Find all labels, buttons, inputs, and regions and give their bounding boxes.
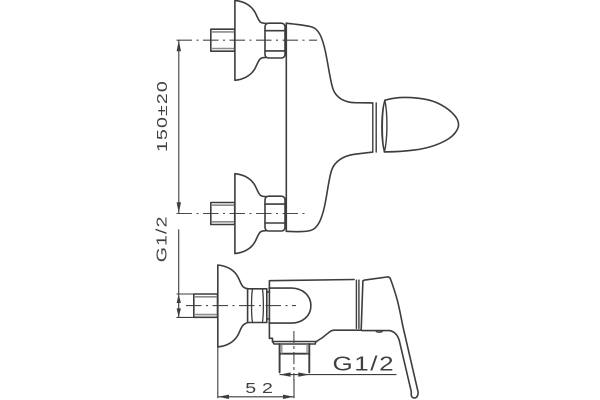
centerline top inlet <box>177 39 318 41</box>
side handle body <box>361 277 418 398</box>
pipe nipple bottom (threaded) <box>211 203 235 225</box>
wall extension line for 52 <box>218 347 294 398</box>
side pipe thread lines <box>195 297 218 315</box>
body outline lower S-curve <box>286 152 373 232</box>
arrow down 150±20 <box>177 202 181 213</box>
outlet flange centerline (vertical) <box>293 331 295 381</box>
escutcheon bell bottom <box>235 174 266 254</box>
arrow left 52 <box>218 395 229 399</box>
hex nut bottom <box>265 196 285 231</box>
inner inlet stadium <box>269 288 311 323</box>
side hex nut <box>248 289 267 323</box>
body wall face line <box>285 23 287 231</box>
side collar rings <box>356 280 359 328</box>
side pipe nipple <box>194 294 218 317</box>
arrow right outlet <box>298 372 309 376</box>
label 52 <box>245 379 278 396</box>
cartridge collar rings <box>373 103 376 152</box>
svg-text:52: 52 <box>245 379 278 396</box>
arrow up 150±20 <box>177 40 181 51</box>
outlet dimension line + leader to G1/2 <box>280 374 397 376</box>
pipe thread lines bottom <box>212 205 235 222</box>
arrow up pipe dia <box>177 294 181 303</box>
escutcheon bell top <box>235 0 266 80</box>
svg-text:G1/2: G1/2 <box>333 352 396 374</box>
handle base lens <box>382 100 387 152</box>
arrow right 52 <box>283 395 294 399</box>
side body block <box>269 280 354 342</box>
body bottom lip <box>273 342 316 345</box>
body underside curve to collar <box>316 330 361 342</box>
indicator button <box>376 331 383 333</box>
side centerline horizontal <box>186 305 296 307</box>
dimension 150±20 line <box>178 40 180 213</box>
G1/2 leader + diameter dimension line <box>178 229 180 317</box>
union ring <box>267 292 270 319</box>
outlet threaded stub <box>280 344 310 372</box>
svg-text:G1/2: G1/2 <box>153 215 170 262</box>
label 150±20 <box>153 80 170 152</box>
pipe thread lines top <box>212 32 235 49</box>
centerline bottom inlet <box>177 213 306 215</box>
label G1/2 bottom <box>333 352 396 374</box>
dimension 52 line <box>218 396 294 398</box>
body outline upper S-curve <box>286 23 373 103</box>
arrow left outlet <box>280 372 291 376</box>
svg-text:150±20: 150±20 <box>153 80 170 152</box>
pipe nipple top (threaded) <box>211 29 235 51</box>
G1/2 extension lines <box>177 294 195 317</box>
side escutcheon bell <box>218 265 249 347</box>
handle knob (bullet) <box>384 97 458 151</box>
outlet thread inner lines <box>282 345 307 354</box>
arrow down pipe dia <box>177 308 181 317</box>
label G1/2 left <box>153 215 170 262</box>
hex nut top <box>265 23 285 58</box>
